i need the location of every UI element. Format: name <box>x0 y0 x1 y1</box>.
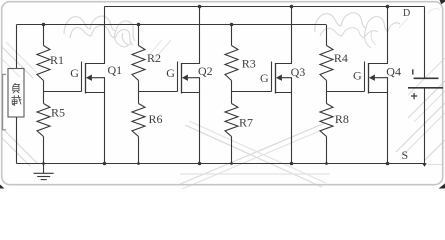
battery plus sign <box>411 93 417 99</box>
wire: battery to bottom rail <box>424 88 426 164</box>
transistor Q4 arrow head <box>369 75 375 81</box>
resistor R1 <box>37 46 50 81</box>
wire: R4 to gate node <box>326 81 328 104</box>
transistor Q2 body arrow lead <box>188 78 200 93</box>
node: R3 top junction <box>230 23 234 27</box>
svg-text:Q4: Q4 <box>386 65 401 79</box>
transistor Q1 drain lead <box>86 7 105 64</box>
transistor Q1 channel bar <box>85 63 87 94</box>
watermark diagonals bottom-left <box>2 128 38 164</box>
wire: R6 to bottom rail <box>138 137 140 164</box>
node: R8 bottom junction <box>325 162 328 165</box>
battery plate long (positive) <box>408 87 443 89</box>
svg-text:G: G <box>166 66 175 80</box>
transistor Q1 gate bar <box>81 62 83 92</box>
corner mark bottom-right <box>439 184 445 189</box>
transistor Q1 arrow head <box>86 75 92 81</box>
resistor R4 <box>320 46 333 81</box>
corner mark top-right <box>440 0 445 4</box>
svg-text:R7: R7 <box>239 116 253 130</box>
battery plate short (negative) <box>414 77 439 79</box>
watermark diagonals upper-left <box>1 46 33 78</box>
wire: lower rail to R4 <box>326 25 328 46</box>
wire: upper rail down to battery + terminal D <box>424 7 426 79</box>
watermark faint dashes bottom-right <box>428 164 443 166</box>
watermark diagonals right <box>396 103 445 152</box>
wire: R2 to gate node <box>138 81 140 104</box>
watermark corner bumps top-right <box>428 9 440 14</box>
corner mark bottom-left <box>0 185 5 189</box>
node: Q4 source junction <box>386 162 390 166</box>
svg-text:Q1: Q1 <box>108 63 123 77</box>
wire: lower rail to R3 <box>231 25 233 46</box>
svg-text:R2: R2 <box>147 51 161 65</box>
node: Q3 drain junction <box>290 5 294 9</box>
watermark faint diagonal centre <box>152 40 171 62</box>
wire: R7 to bottom rail <box>231 137 233 164</box>
transistor Q3 drain lead <box>276 7 292 64</box>
wire: gate node to Q4 gate <box>327 91 365 93</box>
svg-text:S: S <box>402 148 409 162</box>
node: Q2 source junction <box>198 162 202 166</box>
svg-text:G: G <box>353 69 362 83</box>
load box (negative-load) <box>8 69 24 118</box>
svg-text:Q2: Q2 <box>198 64 213 78</box>
transistor Q4 channel bar <box>368 63 370 94</box>
junction arrow at battery/bottom-rail <box>422 163 427 167</box>
svg-text:R5: R5 <box>51 105 65 119</box>
node: R6 bottom junction <box>137 162 140 165</box>
battery minus tick <box>412 69 414 74</box>
ground bars <box>34 172 54 174</box>
transistor Q2 channel bar <box>181 63 183 94</box>
wire: R3 to gate node <box>231 81 233 104</box>
resistor R8 <box>320 104 333 137</box>
wire: gate node to Q2 gate <box>139 91 178 93</box>
transistor Q4 drain lead <box>369 7 388 64</box>
watermark cross <box>178 123 325 185</box>
resistor R2 <box>132 46 145 81</box>
load text char 2 (zai) <box>12 96 21 98</box>
node: Q1 source junction <box>103 162 107 166</box>
transistor Q2 source lead <box>182 93 200 164</box>
wire: upper drain rail <box>104 6 424 8</box>
svg-text:Q3: Q3 <box>291 65 306 79</box>
transistor Q3 body arrow lead <box>282 78 292 93</box>
resistor R3 <box>225 46 238 81</box>
transistor Q4 gate bar <box>364 62 366 92</box>
watermark hook centre-left <box>114 31 131 47</box>
node: Q4 drain junction <box>386 5 390 9</box>
wire: load bottom to bottom rail <box>16 117 18 164</box>
node: R5 bottom junction <box>42 162 45 165</box>
svg-text:D: D <box>403 8 410 19</box>
watermark hook top-right <box>365 28 371 48</box>
node: R1 top junction <box>42 23 46 27</box>
wire: bottom source rail <box>17 163 425 165</box>
wire: lower rail to load top <box>16 25 18 69</box>
svg-text:R6: R6 <box>149 112 163 126</box>
transistor Q4 source lead <box>369 93 388 164</box>
node: Q2 drain junction <box>198 5 202 9</box>
transistor Q3 arrow head <box>276 75 282 81</box>
wire: R1 to gate node <box>43 81 45 104</box>
partial bracket at left edge <box>3 74 6 129</box>
svg-text:G: G <box>70 66 79 80</box>
wire: lower rail <box>17 24 327 26</box>
wire: lower rail to R2 <box>138 25 140 46</box>
transistor Q4 body arrow lead <box>375 78 388 93</box>
load text char 1 (fu) <box>13 83 16 86</box>
transistor Q3 channel bar <box>275 63 277 94</box>
watermark cloud top-right <box>315 13 400 32</box>
transistor Q1 body arrow lead <box>92 78 105 93</box>
transistor Q3 gate bar <box>271 62 273 92</box>
transistor Q2 drain lead <box>182 7 200 64</box>
transistor Q2 gate bar <box>177 62 179 92</box>
node: R2 top junction <box>137 23 141 27</box>
wire: gate node to Q3 gate <box>232 91 272 93</box>
node: R7 bottom junction <box>230 162 233 165</box>
transistor Q3 source lead <box>276 93 292 164</box>
watermark cloud top-left <box>64 16 135 41</box>
resistor R7 <box>225 104 238 137</box>
resistor R5 <box>37 104 50 137</box>
svg-text:R1: R1 <box>50 53 64 67</box>
ground stem <box>43 164 45 174</box>
wire: gate node to Q1 gate <box>44 91 82 93</box>
wire: R5 to bottom rail <box>43 137 45 164</box>
transistor Q1 source lead <box>86 93 105 164</box>
frame border (decorative) <box>2 2 443 185</box>
wire: lower rail to R1 <box>43 25 45 46</box>
transistor Q2 arrow head <box>182 75 188 81</box>
node: Q3 source junction <box>290 162 294 166</box>
wire: R8 to bottom rail <box>326 137 328 164</box>
resistor R6 <box>132 104 145 137</box>
svg-text:G: G <box>260 71 269 85</box>
svg-text:R3: R3 <box>242 57 256 71</box>
svg-text:R8: R8 <box>335 112 349 126</box>
svg-text:R4: R4 <box>334 51 348 65</box>
